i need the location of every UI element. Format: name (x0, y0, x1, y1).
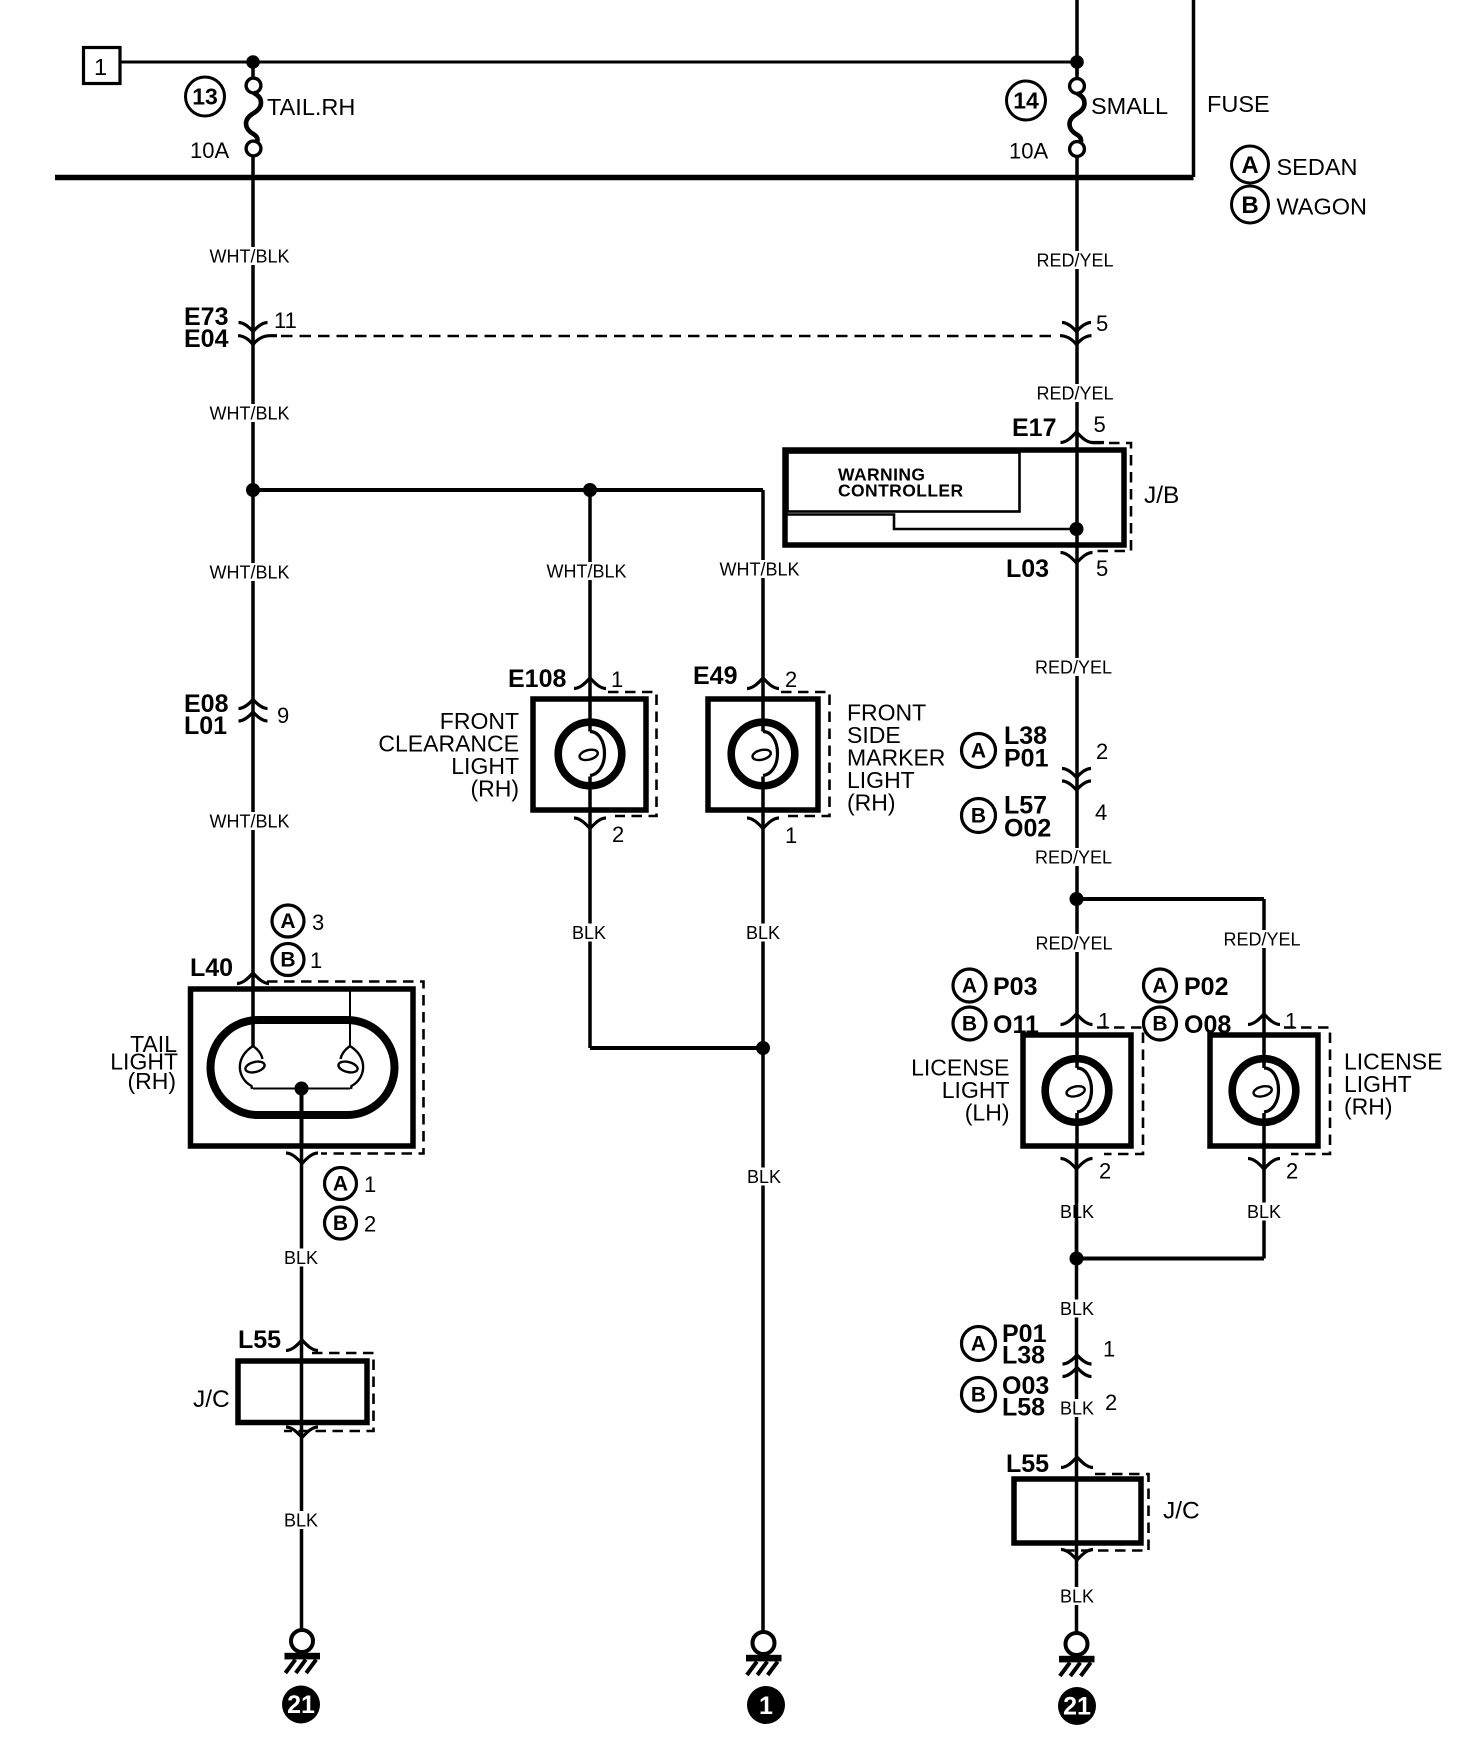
svg-text:B: B (971, 1384, 986, 1407)
license light RH name label (1344, 1049, 1442, 1120)
svg-text:RED/YEL: RED/YEL (1036, 384, 1113, 404)
svg-text:2: 2 (1286, 1159, 1298, 1184)
front clearance light name label (378, 708, 519, 802)
wire E108 to E49 ground link (590, 1046, 763, 1050)
warning controller box (788, 453, 1020, 512)
svg-text:9: 9 (277, 703, 289, 728)
pin label B1 above tail light (272, 944, 322, 976)
ground symbol (left) (285, 1630, 321, 1673)
svg-text:RED/YEL: RED/YEL (1035, 848, 1112, 868)
front clearance light dashed connector outline (608, 692, 657, 816)
svg-text:B: B (962, 1013, 977, 1036)
svg-text:A: A (280, 910, 295, 933)
tail light bulb stadium (211, 1020, 395, 1115)
svg-text:A: A (1241, 152, 1258, 179)
svg-text:WHT/BLK: WHT/BLK (209, 563, 289, 583)
tail light (RH) component box (191, 989, 414, 1146)
wire vertical feed above fuse 14 (1075, 0, 1079, 75)
J/B dashed outline (1092, 443, 1131, 551)
wire right column through J/B (1075, 450, 1079, 545)
svg-text:1: 1 (1098, 1009, 1110, 1034)
svg-text:P03: P03 (993, 973, 1037, 1001)
svg-text:(LH): (LH) (965, 1100, 1010, 1126)
svg-text:A: A (1152, 975, 1167, 998)
wire label RED/YEL (above license junction) (1035, 848, 1112, 868)
svg-text:BLK: BLK (284, 1248, 318, 1268)
svg-text:A: A (962, 975, 977, 998)
svg-text:13: 13 (192, 84, 218, 110)
connector E49 pin 2 (693, 662, 797, 692)
svg-text:4: 4 (1095, 800, 1107, 825)
svg-text:BLK: BLK (747, 1167, 781, 1187)
svg-text:5: 5 (1094, 412, 1106, 437)
svg-text:SEDAN: SEDAN (1277, 154, 1358, 180)
svg-text:2: 2 (1105, 1390, 1117, 1415)
svg-text:1: 1 (364, 1172, 376, 1197)
svg-text:L03: L03 (1006, 555, 1049, 583)
svg-text:SMALL: SMALL (1091, 93, 1168, 119)
license light LH bulb (1045, 1035, 1109, 1146)
connector E73/E04 pin 11 (184, 303, 297, 353)
front side marker light name label (847, 700, 945, 816)
svg-text:(RH): (RH) (1344, 1094, 1393, 1120)
svg-text:L40: L40 (190, 954, 233, 982)
wire label BLK (middle ground wire) (745, 1167, 783, 1187)
license RH bottom chevron pin 2 (1248, 1159, 1298, 1184)
svg-text:21: 21 (1063, 1693, 1091, 1721)
svg-text:A: A (333, 1173, 348, 1196)
wire E49 column to ground (761, 810, 765, 1632)
svg-text:L38: L38 (1002, 1342, 1045, 1370)
ground reference 21 (left) (282, 1686, 320, 1724)
wire E108 column upper (588, 490, 592, 699)
junction at fuse 13 top (246, 55, 260, 69)
connector L55 (left) (238, 1326, 318, 1354)
svg-text:BLK: BLK (1060, 1587, 1094, 1607)
fuse 13 TAIL.RH 10A (246, 62, 261, 177)
svg-text:14: 14 (1013, 88, 1039, 114)
svg-text:WAGON: WAGON (1277, 194, 1368, 220)
svg-text:P01: P01 (1004, 745, 1049, 773)
pin label B2 below tail light (325, 1207, 377, 1239)
wire label RED/YEL (above E17) (1036, 384, 1113, 404)
svg-text:21: 21 (287, 1691, 315, 1719)
junction license lights feed (1070, 892, 1084, 906)
tail light filament left (240, 989, 266, 1089)
E49 bottom chevron pin 1 (747, 818, 797, 848)
license light (RH) component box (1210, 1035, 1318, 1146)
svg-text:10A: 10A (190, 138, 229, 163)
connector E08/L01 pin 9 (184, 690, 289, 740)
wire label BLK (beside L58) (1058, 1399, 1096, 1419)
junction inside tail light (295, 1082, 309, 1096)
wire label RED/YEL (license RH) (1223, 930, 1300, 950)
svg-text:P02: P02 (1184, 973, 1228, 1001)
wire label BLK (E108 column) (570, 923, 608, 943)
tail light filament right (337, 989, 363, 1089)
wire license RH drop (1262, 899, 1266, 1035)
wire label BLK (E49 column) (744, 923, 782, 943)
license light (LH) component box (1023, 1035, 1131, 1146)
svg-text:E04: E04 (184, 325, 229, 353)
svg-text:1: 1 (1285, 1009, 1297, 1034)
svg-text:2: 2 (785, 667, 797, 692)
legend B WAGON (1232, 186, 1368, 223)
wire license BLK link (1077, 1257, 1265, 1261)
svg-text:BLK: BLK (1247, 1202, 1281, 1222)
junction at E108 branch (583, 483, 597, 497)
license LH bottom chevron pin 2 (1061, 1159, 1112, 1184)
svg-text:E108: E108 (508, 665, 566, 693)
svg-text:TAIL.RH: TAIL.RH (267, 94, 355, 120)
junction at left column branch (246, 483, 260, 497)
connector E108 pin 1 (508, 665, 623, 693)
J/C dashed outline (left) (284, 1353, 374, 1431)
wire label RED/YEL (above connector 5) (1036, 251, 1113, 271)
svg-text:5: 5 (1096, 556, 1108, 581)
svg-text:B: B (1241, 192, 1258, 219)
front side marker light bulb E49 (731, 699, 795, 810)
svg-text:B: B (1152, 1013, 1167, 1036)
svg-text:1: 1 (611, 667, 623, 692)
wire vertical right edge to fuse box (1192, 0, 1196, 177)
ground symbol (right) (1059, 1633, 1095, 1676)
wire label WHT/BLK (E108 column) (546, 562, 626, 582)
license light LH name label (911, 1055, 1009, 1126)
tail light dashed connector outline (267, 982, 424, 1154)
connector L40 (190, 954, 269, 984)
connector L03 pin 5 (1006, 553, 1108, 584)
fuse 14 SMALL 10A (1070, 62, 1085, 177)
front clearance light bulb E108 (558, 699, 622, 810)
svg-text:2: 2 (1096, 739, 1108, 764)
wire label WHT/BLK (left, below E73) (209, 404, 289, 424)
fuse 13 number label (186, 77, 225, 116)
svg-text:BLK: BLK (284, 1511, 318, 1531)
junction license grounds (1070, 1252, 1084, 1266)
wire branch to clearance and side marker lights (253, 488, 763, 492)
connector license LH A:P03 B:O11 pin 1 (953, 969, 1110, 1040)
wire label BLK (above P01/L38) (1058, 1299, 1096, 1319)
svg-text:1: 1 (94, 54, 107, 80)
ground reference 21 (right) (1058, 1687, 1096, 1725)
svg-text:RED/YEL: RED/YEL (1035, 934, 1112, 954)
node 1 power feed box (84, 48, 121, 84)
wire warning controller to main (inside J/B) (786, 515, 1074, 530)
wire label BLK (left lower) (282, 1511, 320, 1531)
wire license LH to BLK junction (1075, 1146, 1079, 1259)
wire label BLK (license LH) (1058, 1202, 1096, 1222)
fuse box bus line (55, 175, 1194, 181)
license light RH dashed connector outline (1284, 1028, 1330, 1155)
wire label BLK (left) (282, 1248, 320, 1268)
wire from node 1 to fuse 14 column (120, 61, 1077, 64)
wire label BLK (license RH) (1245, 1202, 1283, 1222)
svg-text:B: B (280, 949, 295, 972)
wire label WHT/BLK (left, above tail light) (209, 812, 289, 832)
ground symbol (middle) (746, 1632, 782, 1675)
junction connector J/C box (right) (1014, 1479, 1141, 1543)
junction inside J/B (1070, 522, 1084, 536)
wire left column lower (300, 1146, 304, 1630)
svg-text:WHT/BLK: WHT/BLK (209, 404, 289, 424)
svg-text:WHT/BLK: WHT/BLK (719, 560, 799, 580)
tail light internal common wire (253, 1088, 350, 1090)
wire right column to ground (1075, 1146, 1079, 1633)
svg-text:J/B: J/B (1144, 482, 1179, 509)
connector license RH A:P02 B:O08 pin 1 (1144, 969, 1298, 1040)
wire label BLK (right lower) (1058, 1587, 1096, 1607)
svg-text:2: 2 (612, 822, 624, 847)
svg-text:1: 1 (759, 1692, 773, 1720)
wire license feed branch to RH (1077, 897, 1265, 901)
svg-text:1: 1 (785, 823, 797, 848)
svg-text:(RH): (RH) (847, 790, 896, 816)
svg-text:J/C: J/C (1163, 1498, 1200, 1525)
tail light name label (110, 1031, 178, 1094)
wire label RED/YEL (below L03) (1035, 658, 1112, 678)
warning controller label (838, 465, 964, 501)
svg-text:5: 5 (1096, 311, 1108, 336)
legend A SEDAN (1232, 146, 1358, 183)
svg-text:L55: L55 (238, 1326, 281, 1354)
svg-text:BLK: BLK (1060, 1399, 1094, 1419)
svg-text:WHT/BLK: WHT/BLK (546, 562, 626, 582)
svg-text:10A: 10A (1009, 139, 1048, 164)
svg-text:A: A (971, 1333, 986, 1356)
front side marker light (RH) component box (708, 699, 818, 810)
dashed link wire E73/E04 to right column (281, 335, 1058, 338)
wire label WHT/BLK (left, above E73) (209, 247, 289, 267)
wire label RED/YEL (license LH) (1035, 934, 1112, 954)
tail light bottom connector chevron (286, 1153, 318, 1164)
svg-text:L55: L55 (1006, 1450, 1049, 1478)
J/C bottom chevron (left) (286, 1427, 318, 1438)
connector A:P01/L38 B:O03/L58 (962, 1320, 1118, 1422)
svg-text:1: 1 (310, 948, 322, 973)
svg-text:J/C: J/C (193, 1386, 230, 1413)
junction connector J/C box (left) (238, 1361, 367, 1423)
wire right column J/B to license junction (1075, 545, 1079, 1035)
pin label A1 below tail light (325, 1168, 377, 1200)
svg-text:2: 2 (364, 1212, 376, 1237)
connector E17 pin 5 (1012, 412, 1106, 443)
svg-text:RED/YEL: RED/YEL (1036, 251, 1113, 271)
wire E49 column upper (761, 490, 765, 699)
junction E108/E49 ground link (756, 1041, 770, 1055)
svg-text:E17: E17 (1012, 414, 1056, 442)
fuse 14 number label (1007, 81, 1046, 120)
svg-text:L58: L58 (1002, 1394, 1045, 1422)
svg-text:BLK: BLK (1060, 1299, 1094, 1319)
wire tail light output (300, 1089, 304, 1147)
wire right column bus to J/B (1075, 177, 1079, 450)
J/C bottom chevron (right) (1061, 1550, 1093, 1561)
svg-text:WHT/BLK: WHT/BLK (209, 247, 289, 267)
svg-text:1: 1 (1103, 1337, 1115, 1362)
svg-text:BLK: BLK (746, 923, 780, 943)
svg-text:(RH): (RH) (127, 1068, 176, 1094)
svg-text:2: 2 (1099, 1159, 1111, 1184)
front side marker light dashed connector outline (781, 692, 830, 816)
svg-text:E49: E49 (693, 662, 737, 690)
wire label WHT/BLK (E49 column) (719, 560, 799, 580)
svg-text:A: A (971, 740, 986, 763)
junction at fuse 14 top (1070, 55, 1084, 69)
svg-text:B: B (971, 805, 986, 828)
J/C dashed outline (right) (1060, 1474, 1149, 1551)
front clearance light (RH) component box (533, 699, 646, 810)
svg-text:RED/YEL: RED/YEL (1223, 930, 1300, 950)
svg-text:B: B (333, 1212, 348, 1235)
svg-text:(RH): (RH) (470, 776, 519, 802)
E108 bottom chevron pin 2 (574, 818, 624, 847)
connector A:L38/P01 B:L57/O02 (962, 722, 1109, 843)
wire left column from bus to tail light (251, 177, 255, 989)
license light RH bulb (1232, 1035, 1296, 1146)
wire license RH down (1262, 1146, 1266, 1259)
license light LH dashed connector outline (1097, 1028, 1143, 1155)
pin label A3 above tail light (272, 905, 324, 937)
svg-text:L01: L01 (184, 712, 227, 740)
wire E108 column lower (588, 810, 592, 1048)
connector pin 5 (dashed link, right) (1060, 311, 1108, 345)
svg-text:FUSE: FUSE (1207, 91, 1270, 117)
svg-text:O02: O02 (1004, 815, 1051, 843)
svg-text:3: 3 (312, 910, 324, 935)
svg-text:11: 11 (274, 308, 297, 333)
svg-text:CONTROLLER: CONTROLLER (838, 481, 964, 501)
svg-text:WHT/BLK: WHT/BLK (209, 812, 289, 832)
ground reference 1 (middle) (747, 1686, 785, 1724)
junction block J/B box (785, 450, 1124, 545)
connector L55 (right) (1006, 1450, 1093, 1478)
svg-text:BLK: BLK (572, 923, 606, 943)
wire label WHT/BLK (left, below branch) (209, 563, 289, 583)
svg-text:RED/YEL: RED/YEL (1035, 658, 1112, 678)
